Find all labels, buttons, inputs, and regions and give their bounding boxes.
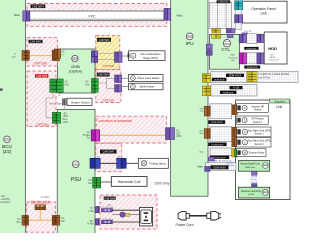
label net sbu-lamp (blue column)	[251, 177, 258, 184]
svg-text:I/O Board: I/O Board	[228, 56, 238, 59]
svg-text:Auto Paper Size (APS): Auto Paper Size (APS)	[248, 140, 272, 143]
board BCU (left strip, cropped)	[0, 0, 25, 237]
op-amp icon PSU	[72, 161, 79, 168]
svg-text:appr: appr	[199, 129, 203, 132]
svg-text:Unit: Unit	[276, 105, 282, 109]
connector purple pair (CTL left edge lower)	[206, 50, 212, 56]
svg-text:Scanner Lamp/Opt: Scanner Lamp/Opt	[241, 190, 261, 193]
harness label DOM sbu	[211, 165, 229, 169]
label CN coil	[88, 180, 92, 185]
svg-text:Unit: Unit	[260, 12, 266, 16]
svg-text:(SBU) dev: (SBU) dev	[245, 167, 256, 169]
connector brown bars (exit motor top)	[35, 205, 46, 210]
svg-text:CAB 5823/C/dr 400/600/900: CAB 5823/C/dr 400/600/900	[98, 119, 132, 123]
connector green pair (PSU harmonic out)	[93, 177, 101, 188]
connector purple 2x2 (DHB right edge)	[91, 51, 97, 63]
dashed box Exit Motor Unit	[27, 202, 56, 232]
connector purple (below SBU)	[252, 171, 258, 175]
svg-text:L Blk: L Blk	[89, 211, 95, 213]
svg-text:OPTION: OPTION	[34, 62, 48, 66]
connector purple small (CTL link)	[242, 33, 248, 37]
wire AC option (orange)	[29, 55, 52, 57]
svg-text:H: H	[132, 85, 134, 89]
harness label DOM row1	[208, 120, 225, 124]
connector brown pair (exit motor left / BCU)	[22, 215, 29, 225]
svg-text:Tw?: Tw?	[89, 221, 94, 223]
svg-text:Mot: Mot	[61, 220, 65, 223]
connector yellow pair (IPU band2)	[202, 86, 210, 96]
svg-text:To CB: To CB	[233, 88, 240, 90]
node mark BCU edge	[0, 88, 3, 90]
svg-text:N Whi: N Whi	[87, 224, 94, 226]
svg-text:Anti-condensation: Anti-condensation	[140, 53, 161, 56]
connector purple pair (CTL right top)	[239, 34, 246, 42]
svg-text:CAB 5W4: CAB 5W4	[99, 39, 111, 42]
label I/O board unit	[228, 55, 238, 62]
component box HDD	[264, 32, 287, 64]
board PSU	[57, 109, 95, 236]
svg-text:Exit Motor Unit: Exit Motor Unit	[31, 200, 50, 204]
connector purple small (IPU sbu left)	[205, 166, 210, 171]
svg-text:H: H	[132, 54, 134, 58]
connector green pair CN105 (PSU left edge)	[52, 112, 60, 123]
ribbon band1 ARDF (dotted)	[211, 71, 298, 82]
connector green pair (DHB bottom-right AC out)	[85, 79, 98, 93]
svg-text:200V Only: 200V Only	[154, 182, 169, 186]
svg-text:DHB: DHB	[71, 64, 80, 69]
svg-text:CAB 5W9: CAB 5W9	[36, 75, 48, 78]
connector green pair CN (DHB bottom-left AC out)	[50, 79, 69, 92]
svg-text:HDD: HDD	[268, 46, 277, 51]
svg-text:Scanner: Scanner	[274, 99, 284, 103]
connector purple pair (HDD upper)	[257, 34, 264, 42]
connector brown pair (IPU row1)	[204, 106, 210, 116]
svg-text:(dry): (dry)	[199, 132, 204, 135]
svg-text:Sensor 1: Sensor 1	[255, 133, 265, 136]
dashed box CAB 5W6 (fusing)	[96, 143, 122, 171]
component box Heater Switch	[67, 98, 92, 105]
label CN exit right	[61, 218, 65, 223]
svg-text:Max: Max	[197, 164, 203, 168]
label AC 100V (IPU side)	[176, 130, 182, 139]
op-amp icon CTL	[223, 40, 230, 47]
connector yellow quad (band1 mid)	[247, 72, 257, 82]
sensor box Scanner HP Sensor	[237, 103, 269, 112]
connector purple pair (PSU AC in L)	[96, 206, 102, 212]
svg-text:DOM-XXXX: DOM-XXXX	[213, 168, 226, 170]
ribbon SBU (dotted horizontal)	[205, 163, 236, 171]
svg-text:Sensor 2: Sensor 2	[255, 143, 265, 146]
svg-text:DOM-XXX: DOM-XXX	[247, 67, 258, 69]
svg-text:DOM-XXX: DOM-XXX	[223, 92, 234, 94]
svg-text:Heater (PCU): Heater (PCU)	[143, 57, 158, 60]
connector brown pair (scanner row1)	[232, 105, 238, 115]
connector magenta pair (CTL right lower)	[239, 53, 246, 64]
svg-text:FFC: FFC	[89, 14, 96, 18]
connector brown pair (DHB left-top AC in)	[54, 49, 65, 58]
svg-text:+24V: +24V	[63, 116, 69, 118]
connector pair (heater switch)	[62, 99, 66, 105]
ribbon cyan-purple (dotted)	[236, 10, 242, 15]
svg-text:CN: CN	[88, 180, 92, 182]
component AC inlet socket	[140, 207, 153, 226]
svg-text:CTL: CTL	[221, 47, 230, 52]
svg-text:+AC: +AC	[96, 155, 101, 158]
svg-text:Mot: Mot	[16, 221, 20, 224]
board DHB (Option)	[58, 49, 96, 93]
ribbon scanner row5 (dotted)	[210, 148, 232, 156]
svg-text:(2/2): (2/2)	[3, 149, 12, 154]
svg-text:Power Cord: Power Cord	[176, 223, 194, 227]
harness label DOM top	[217, 0, 231, 3]
sensor box SP Position Sensor	[237, 116, 269, 124]
wire to anti-condensation heater	[122, 55, 129, 57]
svg-text:S: S	[244, 118, 246, 122]
svg-text:(Option): (Option)	[69, 69, 82, 73]
wire routing option heater to PSU (gray)	[46, 93, 60, 118]
dashed box CAB 5W6 (AC inlet)	[100, 195, 157, 229]
harness label DOM hdd1	[244, 47, 258, 50]
svg-text:Bank Heater: Bank Heater	[140, 85, 155, 89]
sensor box APS Sensor 2	[237, 138, 271, 147]
svg-text:CAB 5W4: CAB 5W4	[98, 74, 110, 77]
wire live to inlet (black)	[112, 209, 139, 211]
connector brown pair (DHB edge, option cable)	[52, 50, 59, 60]
ribbon down to CTL (dotted)	[236, 23, 242, 29]
wire heater option (gray)	[98, 53, 115, 55]
harness label To CTL	[230, 86, 243, 90]
svg-text:Harmonic Coil: Harmonic Coil	[118, 180, 141, 184]
svg-text:LEDB: LEDB	[248, 194, 254, 196]
component box Scanner Unit	[236, 100, 290, 200]
connector brown pair (BCU edge, option cable)	[22, 51, 29, 61]
connector purple small (CTL top)	[227, 34, 233, 37]
op-amp icon IPU	[186, 33, 193, 40]
svg-text:Power Un: Power Un	[270, 59, 280, 62]
ribbon scanner row3 (dotted)	[210, 127, 232, 142]
svg-text:DOM-XXXX: DOM-XXXX	[211, 122, 223, 124]
svg-text:DOM-XXX: DOM-XXX	[246, 48, 257, 50]
harness label CAB 5874	[31, 4, 46, 8]
wire routing lower option (gray)	[98, 79, 114, 89]
svg-text:Fusing lamp: Fusing lamp	[149, 162, 166, 166]
connector purple pair (op panel lower)	[235, 15, 243, 23]
ribbon band2 CIS (dotted)	[211, 84, 257, 96]
svg-text:Coil: Coil	[88, 183, 92, 185]
component box Bank Heater	[129, 83, 164, 90]
connector brown pair (IPU row3)	[204, 129, 210, 139]
svg-text:Interface: Interface	[0, 201, 10, 204]
svg-text:Out: Out	[65, 83, 69, 86]
svg-text:2.54 CB: 2.54 CB	[244, 31, 252, 33]
harness label CAB 5W6	[100, 150, 117, 154]
svg-text:GND: GND	[63, 122, 68, 124]
svg-text:S: S	[244, 130, 246, 134]
harness label DOM band1b	[212, 78, 227, 82]
labels CN105 pins	[63, 113, 69, 123]
wire to harmonic coil	[101, 181, 112, 183]
connector purple pair (CTL left edge upper)	[206, 44, 212, 49]
board IPU (center green column)	[171, 0, 208, 196]
svg-text:Operation Panel: Operation Panel	[251, 7, 276, 11]
svg-text:+AC: +AC	[117, 155, 122, 158]
svg-text:+AC: +AC	[107, 203, 112, 206]
svg-text:DOM-XXXX: DOM-XXXX	[214, 157, 226, 159]
connector brown pair (scanner row4)	[232, 138, 238, 147]
connector yellow pair (IPU op-panel 1)	[212, 29, 221, 33]
svg-text:Sensor 1: Sensor 1	[253, 121, 263, 124]
ribbon HDD lower (dotted)	[247, 53, 257, 63]
dashed box OPTION (yellow, CAB 5W4)	[96, 36, 120, 70]
sensor box APS Sensor 1	[237, 127, 271, 137]
svg-text:To ARDF I/F or ARDF DF2020: To ARDF I/F or ARDF DF2020	[258, 73, 289, 76]
connector purple pair (HDD lower)	[257, 53, 264, 64]
connector purple small (IPU sbu top)	[209, 157, 215, 161]
ribbon scanner row1 (dotted)	[210, 104, 232, 119]
labels PSU AC lines	[87, 208, 94, 226]
svg-text:DOM-XXXX: DOM-XXXX	[212, 144, 224, 146]
connector purple pair (IPU left AC)	[166, 128, 175, 140]
connector blue pair (PSU fusing out)	[90, 158, 100, 168]
connector purple (above lamp)	[252, 184, 258, 188]
svg-text:SBU dev: SBU dev	[227, 165, 235, 167]
wire FFC flat cable	[30, 11, 164, 21]
connector purple pair (lower box row B)	[115, 85, 122, 92]
connector brown pair (scanner row3)	[232, 127, 238, 137]
board CTL	[210, 34, 240, 69]
component box Operation Panel Unit	[238, 1, 288, 23]
svg-text:SATA: SATA	[270, 56, 276, 59]
svg-text:OPTION: OPTION	[102, 99, 114, 103]
svg-text:DOM-XXXX: DOM-XXXX	[229, 75, 242, 77]
component noise filter (purple bead)	[112, 212, 139, 217]
svg-text:AC: AC	[87, 131, 91, 134]
connector magenta pair CN (PSU right AC)	[91, 130, 100, 141]
svg-text:CAB 5874: CAB 5874	[32, 4, 44, 8]
connector blue pair (fusing lamp side)	[117, 158, 127, 168]
svg-text:PSU: PSU	[71, 177, 82, 183]
svg-text:I/F Box: I/F Box	[83, 135, 91, 137]
wire AC 100V (orange)	[100, 134, 166, 136]
connector brown pair (exit motor right)	[52, 215, 60, 225]
dashed box OPTION (lower, CAB 5W4b)	[96, 70, 121, 103]
harness label CAB 5W4	[97, 38, 111, 42]
connector purple pair (lower box row A)	[115, 75, 122, 83]
wire neutral to inlet (black)	[112, 221, 139, 223]
connector CN201 (IPU end of FFC, purple pair)	[164, 8, 171, 20]
svg-text:IPU: IPU	[186, 41, 195, 47]
harness label CAB 5W6b	[104, 197, 116, 201]
svg-text:AC: AC	[62, 51, 66, 54]
dashed cable band CAB 5823 (PSU to IPU AC)	[96, 116, 166, 143]
sensor box Scanner Motor	[237, 149, 266, 157]
harness label CAB 5W4b	[97, 73, 110, 77]
harness label DOM row5	[210, 156, 229, 160]
label AC I/F Box (PSU side)	[83, 131, 91, 140]
svg-text:M: M	[244, 151, 246, 155]
component box Harmonic Coil	[111, 177, 147, 187]
svg-text:OPTION: OPTION	[36, 123, 49, 127]
connector yellow-green pair (scanner motor)	[232, 149, 238, 157]
label chip Scanner	[270, 99, 290, 103]
svg-text:CAB 5W2: CAB 5W2	[30, 41, 42, 44]
component box Paper Feed Heater	[129, 75, 164, 82]
svg-text:Main: Main	[177, 13, 184, 17]
svg-text:S: S	[244, 140, 246, 144]
board SBU (Sensor Board Unit)	[238, 161, 269, 172]
connector cyan pair (op panel)	[235, 1, 243, 10]
op-amp icon BCU	[4, 136, 11, 143]
board Scanner Lamp	[238, 187, 269, 198]
connector purple pair (PSU AC in N)	[96, 219, 102, 225]
wire to paper feed heater	[122, 77, 129, 79]
svg-text:Sensor: Sensor	[254, 109, 262, 112]
svg-text:CAB 5W6: CAB 5W6	[103, 150, 115, 154]
icon power cord female plug	[178, 212, 189, 220]
harness label CAB 5W9 (red)	[35, 74, 48, 78]
connector purple pair (yellow box right)	[115, 52, 123, 62]
svg-text:Out: Out	[85, 83, 89, 86]
svg-text:Paper Feed Heater: Paper Feed Heater	[137, 76, 159, 80]
wire to bank heater	[122, 86, 129, 88]
dashed box OPTION (left, CAB 5W2)	[27, 38, 57, 66]
harness label DOM row3	[208, 143, 226, 147]
component box Fusing lamp	[138, 158, 168, 168]
svg-text:and I/F Dev: and I/F Dev	[258, 77, 271, 79]
svg-text:MB?: MB?	[231, 55, 236, 57]
connector purple bar (inlet neutral)	[102, 220, 113, 223]
svg-text:Sym: Sym	[12, 56, 17, 58]
connector yellow pair (IPU band1)	[202, 74, 210, 83]
svg-text:Sensor Board Unit: Sensor Board Unit	[240, 163, 260, 166]
harness label DOM hdd2	[244, 66, 260, 70]
connector CN102 (BCU end of FFC, purple pair)	[23, 11, 30, 21]
svg-text:Scanner Motor: Scanner Motor	[249, 152, 265, 155]
svg-text:Out: Out	[86, 137, 90, 140]
wire fusing (black)	[100, 162, 117, 164]
svg-text:Mount Tight: Mount Tight	[49, 102, 62, 105]
dashed box OPTION (bottom-left, CAB 5W9)	[27, 71, 56, 127]
ribbon HDD upper (dotted)	[247, 34, 257, 44]
svg-text:Rem: Rem	[63, 119, 68, 121]
dashed cable box FFC CAB 5874	[27, 4, 167, 27]
harness label DOM band1a	[226, 74, 244, 78]
svg-text:Main: Main	[14, 13, 21, 17]
harness label DOM band2	[220, 91, 237, 95]
svg-text:CN: CN	[61, 218, 65, 220]
icon power cord male plug	[207, 212, 221, 220]
ribbon cable op-panel (dotted, IPU top right)	[209, 2, 231, 28]
harness label CAB 5W2	[29, 40, 43, 44]
svg-text:H: H	[132, 76, 134, 80]
svg-text:AC: AC	[176, 130, 180, 133]
svg-text:DOM-XXX: DOM-XXX	[218, 2, 229, 4]
svg-text:appr: appr	[199, 107, 203, 110]
connector yellow pair (IPU op-panel 2)	[212, 34, 221, 38]
wire heater switch to PSU	[64, 106, 66, 110]
svg-text:OPTION: OPTION	[102, 64, 114, 68]
svg-text:Auto Paper Size (APS): Auto Paper Size (APS)	[248, 129, 272, 132]
svg-text:240V: 240V	[176, 136, 182, 138]
wire exit motor (orange)	[39, 210, 41, 221]
op-amp icon DHB	[72, 55, 78, 61]
svg-text:Heater Switch: Heater Switch	[71, 100, 90, 104]
svg-text:Unit: Unit	[231, 59, 235, 62]
component box Anti-condensation Heater	[128, 51, 165, 61]
svg-text:S: S	[244, 106, 246, 110]
connector purple pair (CTL op-panel)	[226, 29, 235, 33]
svg-text:+5V: +5V	[63, 113, 68, 115]
svg-text:DOM-XXX: DOM-XXX	[214, 80, 225, 82]
wire power cord	[189, 215, 207, 217]
connector purple bar (inlet live)	[102, 209, 113, 212]
svg-text:CAB 5W6: CAB 5W6	[104, 197, 116, 200]
